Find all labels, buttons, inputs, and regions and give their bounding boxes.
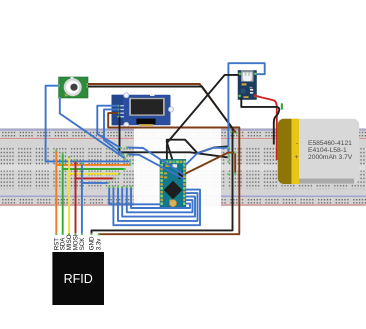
wire brown: OLED pin3 down, long run right, down right of board, to RFID 3.3v [99, 113, 240, 235]
svg-text:+: + [295, 154, 299, 161]
wire green: RFID SDA up to breadboard [62, 153, 64, 234]
svg-text:3.3v: 3.3v [96, 238, 103, 251]
wire blue: buzzer left pin to breadboard row, long left vertical then right [46, 86, 131, 162]
breadboard top blue rail line [0, 129, 366, 132]
breadboard top rail holes [0, 131, 366, 137]
wire blue: breadboard hole across pro micro to right pin (SDA) [127, 147, 184, 174]
wire blue: RFID SCK up to breadboard [81, 163, 83, 235]
green connection dots on breadboard [55, 131, 237, 236]
RFID pin labels [53, 234, 102, 250]
pro micro right pin pads [183, 164, 186, 205]
wire blue: buzzer bottom pin diagonal to breadboard hole [60, 98, 125, 159]
wire blue loop 3 [122, 187, 195, 216]
battery 2000mAh LiPo [278, 119, 359, 184]
pro micro board [160, 159, 186, 207]
svg-text:GND: GND [89, 236, 96, 250]
wire yellow: row jumper [69, 173, 119, 175]
wire green: row jumper [63, 168, 125, 170]
pro micro left pin pads [160, 164, 163, 205]
wire red: RFID MOSI up to breadboard [75, 160, 77, 235]
wire orange: RFID RST up to breadboard [55, 150, 57, 235]
wire black: pro micro top pin zigzag right to breadboard [167, 140, 228, 162]
wire blue: charger top loop down into breadboard [228, 63, 264, 148]
breadboard main grid holes bottom half [0, 171, 366, 190]
wire blue: OLED pin1 left then down-diagonal to breadboard hole [97, 106, 121, 149]
wire blue loop 2 [118, 187, 198, 221]
wire blue: OLED pin2 left then down-diagonal to breadboard hole [104, 109, 123, 154]
breadboard top red rail line [0, 137, 366, 140]
breadboard body [0, 128, 366, 206]
wire blue: breadboard hole across pro micro to right pin (SCL) [128, 155, 184, 179]
wire brown: buzzer right pin long run to breadboard top rail [88, 84, 236, 133]
white note overlay on breadboard [134, 128, 221, 207]
svg-text:SCK: SCK [79, 237, 86, 251]
breadboard bottom blue rail line [0, 195, 366, 198]
svg-text:2000mAh 3.7V: 2000mAh 3.7V [308, 154, 353, 161]
breadboard bottom red rail line [0, 203, 366, 206]
breadboard bottom rail holes [0, 197, 366, 203]
svg-text:RFID: RFID [64, 272, 93, 286]
wire black: charger B- down right to battery minus [241, 98, 279, 145]
wire black: buzzer right pin long run diagonal down right side then to RFID GND [88, 87, 233, 235]
wire blue loop 1 from pro micro right pins around bottom to breadboard columns [113, 187, 200, 225]
wire blue loop 5 [131, 187, 190, 208]
wire blue loop 4 [127, 187, 193, 212]
buzzer module (green board) [58, 77, 88, 99]
battery connector tab [281, 103, 283, 109]
wire red: row jumper [76, 177, 114, 179]
wire orange: row jumper [56, 164, 130, 166]
wire red: charger B+ to battery plus [254, 95, 277, 160]
wire black: charger IN- left then diagonal to pro micro top pin [167, 75, 239, 162]
svg-text:-: - [296, 140, 298, 147]
OLED display module [112, 93, 174, 128]
breadboard main grid holes top half [0, 147, 366, 166]
RFID module black box [52, 252, 104, 305]
wire blue: pro micro right pin diagonal up to breadboard [185, 148, 228, 166]
wire brown: pro micro right pin diagonal up to breadboard [185, 153, 235, 174]
wire yellow: RFID MISO up to breadboard [68, 157, 70, 235]
pro micro top pin pads [162, 161, 186, 164]
charger module TP4056 [238, 71, 257, 100]
wire black: OLED pin4 down then right to breadboard [120, 117, 229, 158]
wire blue: pro micro left bottom pin to breadboard column [109, 187, 160, 204]
wire blue: row jumper [82, 182, 108, 184]
